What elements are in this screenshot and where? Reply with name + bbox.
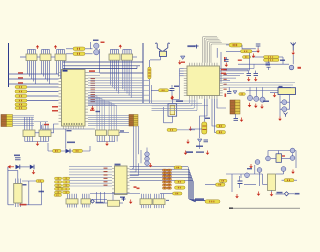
label Q1 [93,40,99,42]
label T1 [279,86,283,88]
ground arrow [129,200,133,204]
power arrow VCC RN4 [119,45,122,49]
connector CN1 [129,115,138,127]
resistor R12 [216,124,226,127]
power arrow VCC RN1 [36,45,39,49]
wire [252,50,258,52]
label [280,60,285,62]
wire [216,48,218,58]
label [120,130,124,131]
resistor network RN3 [55,50,66,85]
antenna E1 [291,43,296,51]
ground arrow [178,60,182,64]
transformer T1 [278,88,296,95]
wire right bus [223,83,295,88]
label [247,168,252,169]
transistor Q6 [290,148,295,153]
transistor Q10 [257,168,262,173]
resistor R13 [216,131,226,134]
transistor Q2 [94,50,99,55]
resistor R7 [159,89,169,92]
wire QFP bottom fan left [152,99,198,111]
wire [90,42,92,49]
wire QFP right fan [223,65,254,81]
comp diamond [91,200,95,204]
resistor R3 vertical [148,67,151,79]
oscillator Y3 [289,65,294,70]
label [14,155,20,157]
transformer T2 pills [264,56,280,59]
net label pill [173,192,183,195]
wire [146,148,148,152]
wire into RN1 [20,56,26,58]
net label [238,60,242,61]
diode D11 [16,165,20,170]
IC U7B [108,130,119,142]
capacitor C11 [234,114,239,120]
net label [20,204,27,206]
IC U10 [81,194,91,208]
ground arrow [240,118,244,122]
label [174,86,179,88]
ground arrow [252,54,256,58]
wire [199,142,201,149]
wire [171,100,173,104]
power arrow [91,106,95,110]
wire [63,65,140,67]
diode stack D10 [145,161,150,166]
wire rail branch A2 [9,83,59,85]
resistor R5 [73,149,83,152]
wire U4 right risers [130,126,141,175]
diode D7 [198,139,203,142]
power cross [122,197,126,201]
IC U7A [96,130,107,142]
resistor R11 [239,93,246,96]
resistor R9 [241,50,253,53]
LED D5 [282,100,287,105]
transistor Q9 [255,160,260,165]
pin label [225,94,227,97]
ground arrow [278,117,282,121]
connector J1 [1,115,13,127]
label [67,130,72,131]
wire [100,72,143,74]
wire [166,199,169,201]
ground arrow [32,170,36,174]
label [39,191,45,193]
ground arrow [186,140,190,144]
net label [52,110,58,112]
capacitor C15 [15,158,21,160]
transistor Q11 [245,173,250,178]
transistor Q12 [281,167,286,172]
ground arrow [235,194,239,198]
wire vertical trunk [142,43,144,103]
wire [226,69,249,71]
wire [85,48,93,50]
IC U4 [112,166,130,195]
wire [205,184,216,186]
IC U5 [14,179,22,208]
net label pill [205,200,220,203]
net label [221,69,227,71]
net label [134,186,137,188]
ground arrow [105,142,109,146]
label C1 [67,142,75,144]
capacitor C5 [266,63,271,65]
net label pill [55,187,64,190]
wire [171,116,173,123]
wire [88,72,100,74]
transistor Q1 [94,43,99,48]
IC U1 [59,70,89,127]
wire [276,193,285,195]
ground arrow [256,49,260,53]
resistor R1 [73,47,85,51]
wire [119,131,129,133]
net label pill [174,166,182,169]
wire [27,95,59,97]
wire [282,179,285,181]
wire [27,86,59,88]
label [196,146,203,148]
diode D4 [233,91,237,94]
wire [177,129,195,131]
wire amp mesh [223,151,297,193]
label [120,197,125,198]
diode stack D8 [145,152,150,157]
IC U9 [66,194,78,208]
ground arrow [291,51,295,55]
ground arrow [248,103,252,107]
ground arrow [270,192,274,196]
wire [97,141,115,143]
wire [289,193,294,195]
power arrow [206,151,210,155]
wire [31,117,33,130]
microphone M1 [268,174,276,191]
transistor Q4 [254,96,259,101]
wire [148,79,150,103]
transistor Q7 [290,156,295,161]
ground arrow [291,170,295,174]
IC U12 [153,194,165,208]
pin labels U4 left [104,168,108,186]
wire [191,128,202,130]
net label pill [54,194,62,197]
ground arrow [257,192,261,196]
wire bottom bus left [69,166,112,186]
diode stack D9 [145,156,150,161]
buzzer LS1 body [160,51,167,56]
wire bus U1 right [88,78,150,100]
wire [89,146,91,151]
wire [47,124,49,130]
resistor R10 [243,56,251,59]
net label [96,111,101,112]
capacitor C7 [247,71,252,76]
net label pill L0 [15,86,27,89]
wire loop U5 [8,167,42,205]
ground arrow [149,163,153,167]
wire U1 bottom pins [64,126,84,129]
wire [25,141,49,143]
wire [287,95,290,110]
resistor network RN1 [26,50,37,85]
wire [24,117,26,130]
LED D6 [282,107,287,112]
capacitor C13 [204,140,209,142]
crystal X1 [168,104,177,116]
power arrow [184,151,188,155]
capacitor C8 [254,71,259,76]
wire RN links [37,56,40,58]
ground arrow [170,96,174,100]
wire QFP bottom fan right [200,99,227,138]
IC U3B [39,130,51,142]
net label pill [175,186,186,189]
wire [90,192,140,194]
resistor R4 [53,149,62,152]
net label pill block [15,103,27,106]
wire [20,166,30,168]
net label [52,106,58,108]
capacitor C9 [224,57,229,61]
wire [151,85,153,104]
ground arrow [36,142,40,146]
wire [103,202,108,204]
wire [246,90,278,92]
wire [27,91,59,93]
wire [271,191,273,193]
wire [136,66,138,69]
wire [133,56,138,58]
capacitor C4 [256,44,261,49]
label [263,101,269,103]
transistor Q5 [260,97,265,102]
wire [64,188,69,190]
net label pill L1 [15,90,27,93]
label [195,198,204,200]
label U5 [23,184,27,186]
net label [282,155,285,156]
label U1 [89,70,95,72]
wire [195,200,205,202]
wire [42,124,44,130]
IC U3A [23,130,35,142]
net label pill L3 [15,99,27,102]
power arrow VCC RN3 [54,45,57,49]
net label stack red [163,169,172,189]
op-amp U8 [276,154,282,163]
net label pill L2 [15,95,27,98]
wire U3 link [35,132,39,134]
ground arrow [225,63,229,67]
label U4 [115,164,121,166]
power arrow [189,127,193,131]
power flag [101,42,105,44]
diode D12 [30,165,34,170]
wire rail branch A1 [9,78,59,80]
ground arrow [247,77,251,81]
dashes comp [186,151,204,153]
net label A1 [18,77,23,78]
wire [27,100,59,102]
power arrow [273,93,277,97]
wire QFP top bundle [203,37,230,63]
capacitor C14 [238,176,243,188]
sheet border [229,207,300,209]
capacitor C2 [170,85,175,96]
pin labels QFP right [224,69,227,90]
net label stack yellow [55,177,70,193]
net label A0 [18,72,23,73]
wire [63,61,143,63]
wire [249,87,251,95]
wire [40,122,42,130]
wire [48,150,90,152]
label [96,202,104,204]
resistor network RN5 [122,50,133,98]
resistor network RN2 [40,50,51,85]
pin label [181,62,185,63]
label [205,118,210,120]
pin label [224,57,226,61]
ground arrow [254,77,258,81]
resistor R15 [284,179,294,182]
wire bus middle [88,115,129,125]
wire bottom bus right + bend [130,166,196,201]
wire [88,75,100,77]
wire [66,48,73,50]
wire [160,193,173,195]
net label A2 [18,82,23,83]
label [277,192,283,194]
diode D1 [66,149,71,154]
capacitor C3 [195,45,199,49]
net label [90,110,95,111]
resistor R14 [167,128,177,131]
wire VCC under U1 [41,125,43,129]
net label pill [36,180,44,183]
IC U6 [108,200,120,206]
IC U2 (QFP) [184,63,223,99]
buzzer LS1 bracket [155,43,161,51]
wire [45,122,47,130]
wire [63,68,137,70]
resistor R2 [73,52,85,56]
ground arrow [249,164,253,168]
transistor Q3 [247,95,252,100]
connector CN2 [230,100,240,114]
wire rail branch A0 [9,73,59,75]
pin labels U1 right [91,78,96,102]
wire U3B out [51,124,59,133]
wire staircase to U7 [88,96,117,130]
transistor mark [284,113,288,117]
capacitor C10 [227,87,231,93]
power arrow left [8,165,15,169]
wire [26,117,28,130]
wire [270,91,278,93]
net label pill [175,180,186,183]
wire [47,143,49,151]
label [187,45,195,47]
wire [151,89,159,91]
wire [220,52,222,83]
label X1 [176,100,183,102]
transistor Q8 [266,156,271,161]
power arrow [171,96,174,100]
net label pill [216,183,226,186]
net label [221,73,226,74]
wire bus U1 lower right [88,101,208,106]
diode D3 [181,56,186,59]
label [295,193,300,195]
wire QFP left collector [179,69,181,100]
wire [160,56,162,60]
wire RF mesh [226,45,293,71]
net label [137,188,140,190]
net label [298,67,302,69]
wire [148,60,150,67]
IC U11 [140,194,152,208]
resistor network RN4 [109,50,120,94]
capacitor C6 [267,67,271,70]
wire left vertical rail [8,43,10,87]
capacitor C12 electrolytic [202,122,207,134]
wire [29,117,31,130]
capacitor C16 [284,192,288,196]
resistor R8 [229,43,242,47]
net label [44,124,49,126]
ground arrow [254,104,258,108]
net label pill [219,179,227,182]
wire bus J1 [12,115,34,117]
wire riser grid [96,192,98,203]
ground arrow [260,104,264,108]
